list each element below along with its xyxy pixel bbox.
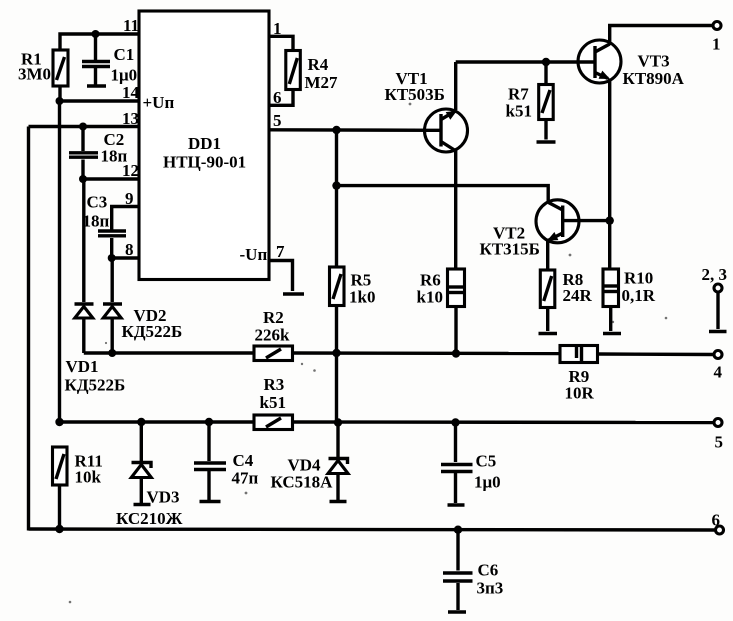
svg-text:k10: k10: [417, 288, 443, 307]
svg-text:КТ503Б: КТ503Б: [385, 85, 445, 104]
node net5/R11: [55, 418, 63, 426]
pin 12 label: [122, 161, 139, 180]
capacitor C1: [82, 30, 137, 86]
capacitor C5: [441, 423, 501, 506]
capacitor C4: [194, 422, 259, 502]
transistor VT2: [480, 200, 610, 259]
svg-text:КД522Б: КД522Б: [65, 376, 126, 395]
node net6/C6: [454, 526, 462, 534]
wire R4 to pin6: [269, 90, 293, 106]
wire pin5 (net A): [269, 128, 441, 132]
terminal 4: [714, 351, 723, 382]
node pin8/C3/VD2: [108, 254, 116, 262]
ground R7: [537, 140, 556, 143]
capacitor C3: [83, 193, 127, 259]
wire netB to VT2 collector: [337, 186, 549, 202]
transistor VT3: [577, 40, 685, 88]
wire vertical from R1 bottom down: [58, 101, 61, 422]
resistor R2: [254, 308, 293, 361]
ground terminal 2,3: [709, 330, 727, 333]
svg-text:226k: 226k: [255, 326, 291, 345]
svg-text:R3: R3: [264, 375, 285, 394]
zener VD3: [116, 422, 183, 528]
wire net4 horizontal (R2 line): [84, 351, 254, 354]
svg-text:DD1: DD1: [188, 134, 221, 153]
ground R8: [539, 332, 558, 335]
terminal 5: [714, 419, 723, 452]
svg-text:24R: 24R: [563, 286, 593, 305]
svg-text:R2: R2: [263, 308, 284, 327]
pin 14 label: [122, 83, 140, 102]
svg-text:10k: 10k: [75, 468, 102, 487]
wire pin7 to ground: [269, 261, 293, 292]
svg-text:14: 14: [122, 83, 140, 102]
svg-text:C3: C3: [87, 193, 108, 212]
terminal 1: [712, 22, 721, 54]
terminal 2,3: [702, 265, 728, 329]
svg-text:C1: C1: [114, 45, 135, 64]
svg-text:КТ890А: КТ890А: [623, 69, 685, 88]
wire VT1 emitter up: [454, 62, 457, 110]
svg-text:1μ0: 1μ0: [111, 66, 138, 85]
svg-text:-Uп: -Uп: [240, 245, 268, 264]
wire pin8: [112, 256, 139, 259]
resistor R6: [417, 269, 465, 354]
resistor R1: [18, 50, 68, 102]
wire net4 mid: [293, 351, 561, 355]
wire pin14 +Up: [60, 99, 140, 102]
svg-text:R4: R4: [308, 55, 329, 74]
svg-text:7: 7: [276, 242, 285, 261]
svg-text:C5: C5: [476, 452, 497, 471]
pin 8 label: [125, 240, 134, 259]
wire pin12: [83, 177, 139, 180]
wire pin11 top: [60, 34, 139, 50]
pin 9 label: [125, 189, 134, 208]
svg-text:3M0: 3M0: [18, 65, 51, 84]
wire pin1 to R4: [269, 36, 293, 50]
pin 11 label: [123, 16, 139, 35]
capacitor C6: [443, 530, 503, 612]
resistor R3: [254, 375, 293, 430]
svg-text:VT3: VT3: [638, 52, 670, 71]
svg-text:4: 4: [714, 363, 723, 382]
node net4/R6: [452, 349, 460, 357]
svg-text:1: 1: [712, 35, 721, 54]
svg-text:C4: C4: [233, 451, 254, 470]
svg-text:k51: k51: [260, 393, 286, 412]
node net5/C4: [205, 418, 213, 426]
pin 7 label: [276, 242, 285, 261]
pin 13 label: [122, 109, 139, 128]
svg-text:КТ315Б: КТ315Б: [480, 240, 540, 259]
svg-text:VD1: VD1: [66, 357, 99, 376]
svg-text:2, 3: 2, 3: [702, 265, 728, 284]
node R1/+Up junction: [56, 97, 64, 105]
resistor R7: [506, 62, 554, 140]
svg-text:КС518А: КС518А: [271, 473, 334, 492]
svg-text:КС210Ж: КС210Ж: [116, 509, 183, 528]
transistor VT1: [385, 69, 468, 152]
svg-text:3п3: 3п3: [477, 579, 504, 598]
svg-text:1μ0: 1μ0: [474, 473, 501, 492]
wire VD2 cathode vertical: [110, 258, 113, 302]
svg-text:+Uп: +Uп: [143, 93, 175, 112]
wire VT2 emitter down to R8: [546, 240, 549, 270]
svg-text:18п: 18п: [83, 212, 110, 231]
node net5/C5: [451, 418, 459, 426]
wire VT1 collector down to R6: [454, 150, 457, 269]
svg-text:6: 6: [712, 511, 721, 530]
wire VT3 emitter down: [608, 79, 611, 270]
resistor R10: [603, 269, 656, 332]
svg-text:C6: C6: [478, 561, 499, 580]
wire top netC (VT1 e - R7 - VT3 b): [456, 60, 595, 63]
wire net5 right: [293, 420, 715, 424]
pin 6 label: [273, 88, 282, 107]
svg-text:НТЦ-90-01: НТЦ-90-01: [163, 153, 246, 172]
wire left tall vertical: [27, 127, 30, 531]
wire pin9: [112, 207, 139, 230]
wire net5 horizontal (R3 line): [60, 420, 255, 423]
capacitor C2: [69, 123, 128, 184]
svg-text:47п: 47п: [232, 469, 259, 488]
resistor R9: [560, 346, 598, 403]
node R7 top: [542, 58, 550, 66]
node pin5 junction: [332, 126, 340, 134]
svg-text:0,1R: 0,1R: [622, 286, 656, 305]
diode VD2: [103, 304, 182, 357]
svg-text:5: 5: [273, 111, 282, 130]
svg-text:10R: 10R: [565, 384, 595, 403]
svg-text:КД522Б: КД522Б: [122, 322, 183, 341]
node netB junction: [332, 181, 340, 189]
svg-text:8: 8: [125, 240, 134, 259]
node net4/R5: [332, 349, 340, 357]
svg-text:5: 5: [715, 433, 724, 452]
svg-text:M27: M27: [305, 73, 339, 92]
node VT3e/VT2b/R10: [606, 216, 614, 224]
wire VD1 anode vertical: [82, 179, 85, 302]
pin 1 label: [273, 19, 282, 38]
terminal 6: [712, 511, 724, 535]
svg-text:R10: R10: [624, 269, 653, 288]
diode VD1: [65, 304, 126, 395]
resistor R8: [540, 270, 592, 331]
resistor R4: [286, 51, 338, 93]
wire VT3 collector to terminal 1: [610, 26, 713, 46]
svg-text:k51: k51: [506, 102, 532, 121]
wire vertical net A down: [335, 130, 338, 422]
ground pin7: [283, 292, 304, 295]
svg-text:1k0: 1k0: [349, 288, 375, 307]
resistor R5: [330, 267, 376, 307]
wire net4 right: [598, 352, 715, 356]
pin 5 label: [273, 111, 282, 130]
wire net6 bottom rail: [29, 529, 716, 530]
wire pin13: [29, 125, 140, 128]
node net5/VD4: [334, 418, 342, 426]
IC DD1 body: [139, 11, 269, 280]
svg-text:18п: 18п: [101, 147, 128, 166]
resistor R11: [53, 447, 103, 533]
zener VD4: [271, 423, 349, 502]
ground R10: [603, 332, 621, 335]
node net5/VD3: [137, 418, 145, 426]
svg-text:11: 11: [123, 16, 139, 35]
svg-text:VD3: VD3: [147, 488, 180, 507]
